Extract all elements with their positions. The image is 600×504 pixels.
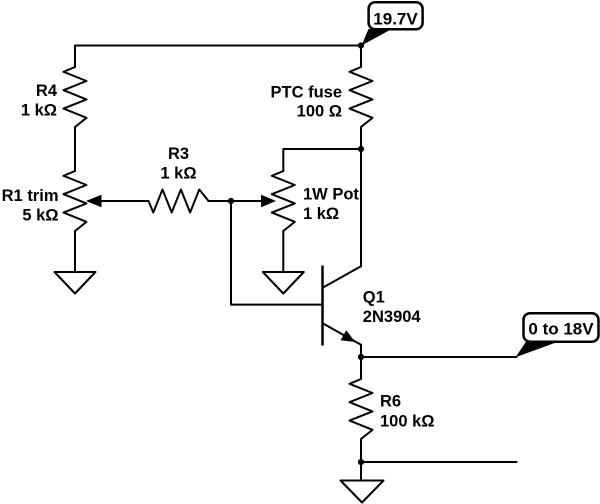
svg-text:R1 trim: R1 trim [2, 187, 59, 205]
node B (junction PTC / pot top / collector) [358, 146, 364, 152]
potentiometer 1W Pot (1 kΩ) [261, 171, 295, 231]
svg-text:1 kΩ: 1 kΩ [160, 165, 196, 183]
wire 1W Pot bottom to ground [282, 231, 284, 272]
label 1W Pot "1W Pot / 1 kΩ" [303, 185, 359, 223]
node supply 19.7V [358, 42, 364, 48]
ground bottom [341, 481, 384, 503]
svg-text:1 kΩ: 1 kΩ [21, 101, 57, 119]
node output [358, 354, 364, 360]
transistor Q1 (2N3904 NPN) [323, 266, 362, 346]
svg-text:R6: R6 [380, 393, 401, 411]
callout "19.7V" [362, 2, 423, 45]
wire R1 trim bottom to ground [74, 231, 76, 272]
wire top rail to PTC fuse [360, 46, 362, 68]
resistor R6 [350, 379, 373, 439]
callout "0 to 18V" [516, 313, 599, 357]
svg-text:5 kΩ: 5 kΩ [22, 206, 58, 224]
svg-text:R3: R3 [168, 145, 189, 163]
svg-text:0 to 18V: 0 to 18V [528, 319, 594, 338]
svg-text:100 kΩ: 100 kΩ [380, 413, 435, 431]
wire R4 to R1 trim [74, 127, 76, 171]
wire R3 to node A [209, 200, 232, 202]
potentiometer R1 trim (5 kΩ) [64, 171, 149, 231]
wire node B down to Q1 collector [360, 149, 362, 266]
svg-text:19.7V: 19.7V [373, 10, 418, 29]
wire bottom node to ground [360, 462, 362, 480]
label Q1 "Q1 / 2N3904" [363, 288, 422, 326]
label R4 "R4 / 1 kΩ" [21, 82, 58, 119]
wire node A to 1W Pot wiper arrow [231, 200, 262, 202]
svg-text:PTC fuse: PTC fuse [270, 83, 342, 101]
svg-text:Q1: Q1 [363, 288, 385, 306]
wire bottom rail [361, 461, 517, 463]
fuse PTC (resistor symbol, 100 Ω) [350, 67, 373, 127]
wire PTC fuse to node B [360, 127, 362, 149]
resistor R4 [64, 46, 87, 128]
wire output to callout [361, 356, 517, 358]
node A (junction of R3, pot wiper, Q1 base) [228, 198, 234, 204]
svg-text:R4: R4 [36, 82, 58, 100]
wire node A down to Q1 base [231, 201, 321, 305]
label R6 "R6 / 100 kΩ" [380, 393, 435, 431]
ground below R1 trim [55, 272, 96, 294]
svg-text:100 Ω: 100 Ω [297, 102, 342, 120]
svg-text:1 kΩ: 1 kΩ [303, 205, 339, 223]
label R1 trim "R1 trim / 5 kΩ" [2, 187, 59, 224]
svg-text:1W Pot: 1W Pot [303, 185, 359, 203]
resistor R3 [149, 190, 209, 213]
ground below 1W Pot [263, 272, 304, 294]
wire 1W Pot top to collector node [283, 149, 361, 171]
wire Q1 emitter down to output node [360, 345, 362, 357]
label PTC fuse "PTC fuse / 100 Ω" [270, 83, 342, 120]
wire top rail from R4 to node at 19.7V [75, 45, 361, 47]
wire output node to R6 [360, 357, 362, 379]
label R3 "R3 / 1 kΩ" [160, 145, 196, 183]
svg-text:2N3904: 2N3904 [363, 308, 422, 326]
node bottom rail [358, 459, 364, 465]
wire R6 to bottom node [360, 439, 362, 462]
